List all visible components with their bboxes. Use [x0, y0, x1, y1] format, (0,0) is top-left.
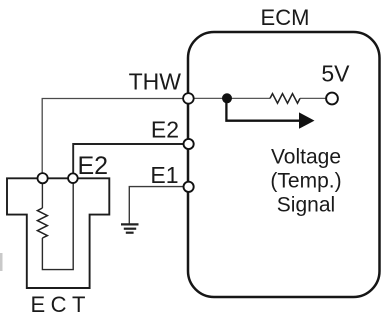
svg-text:ECM: ECM [261, 5, 310, 30]
thermistor R (ECT sensor element) [37, 208, 47, 238]
wire inside ECM: THW pin to pull-up resistor [194, 97, 270, 99]
ECM box U1 [188, 32, 380, 297]
scan artifact left edge [0, 253, 3, 271]
terminal 5V [326, 93, 338, 105]
wire THW net: sensor left terminal up and right to THW pin [42, 99, 183, 174]
terminal E2 [184, 139, 194, 149]
wire E2 net: sensor right terminal up and right to E2 pin [73, 144, 183, 174]
wire sensor internal left lead [41, 178, 43, 208]
arrow voltage signal [226, 98, 299, 120]
svg-text:E1: E1 [150, 162, 178, 188]
terminal THW [183, 93, 194, 104]
svg-text:E2: E2 [78, 152, 109, 180]
ECT sensor housing [7, 178, 109, 288]
junction dot node [222, 93, 232, 103]
terminal sensor E2 left [38, 173, 48, 183]
terminal E1 [184, 182, 194, 192]
svg-text:5V: 5V [321, 61, 350, 87]
ground [121, 224, 139, 232]
wire sensor internal bottom U [42, 178, 73, 269]
resistor R (pull-up in ECM) [270, 94, 300, 104]
terminal sensor E2 right [68, 173, 78, 183]
wire inside ECM: resistor to 5V terminal [300, 97, 326, 99]
svg-text:ECT: ECT [31, 292, 92, 317]
svg-text:(Temp.): (Temp.) [270, 170, 341, 193]
wire E1 net: E1 pin left then down to ground [129, 187, 183, 224]
svg-text:Signal: Signal [277, 194, 335, 217]
svg-text:THW: THW [129, 69, 182, 95]
svg-text:E2: E2 [151, 117, 179, 143]
svg-text:Voltage: Voltage [271, 146, 341, 169]
